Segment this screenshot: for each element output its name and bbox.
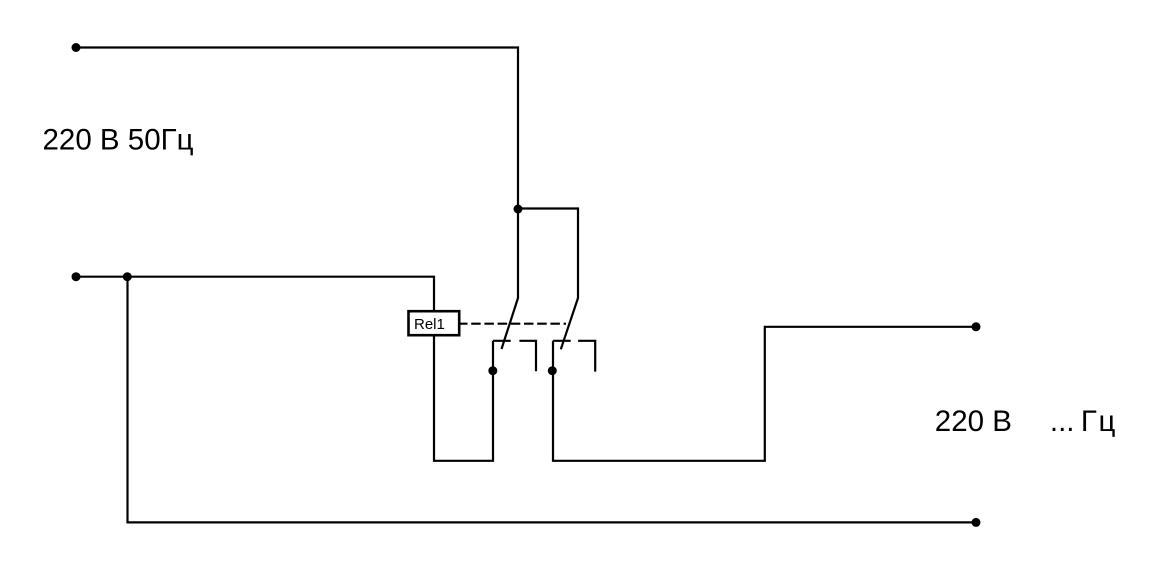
wire: branch from junction to right pole [518, 209, 578, 299]
node: output terminal (upper right) [972, 322, 981, 331]
wire: top feed horizontal then down to pole junction [76, 48, 518, 299]
wire: left drop from junction to bottom rail [128, 277, 977, 523]
wire: second feed horizontal to relay coil [76, 277, 434, 311]
contact K1.2 right fixed contact (bracket) [553, 341, 595, 372]
svg-text:220 В ... Гц: 220 В ... Гц [935, 405, 1117, 438]
node: input terminal L1 (top left) [72, 43, 81, 52]
wire: dashed mechanical link from relay coil to blades [458, 323, 566, 325]
svg-text:220 В 50Гц: 220 В 50Гц [43, 124, 194, 157]
wire: relay coil bottom lead to left contact [434, 336, 493, 461]
wire: right contact leg down and to output [553, 327, 976, 461]
contact K1.1 left fixed contact (bracket) [493, 341, 536, 371]
switch blade S1 (left pole, open) [502, 298, 519, 349]
svg-text:Rel1: Rel1 [414, 316, 445, 333]
switch blade S2 (right pole, open) [561, 298, 578, 349]
node: right contact junction [548, 366, 557, 375]
node: junction on second feed [123, 272, 132, 281]
node: input terminal N (left, second line) [72, 272, 81, 281]
node: junction of both switch poles [514, 205, 523, 214]
node: output terminal (bottom right) [972, 518, 981, 527]
relay coil Rel1 box [409, 311, 460, 335]
node: left contact junction [488, 366, 497, 375]
